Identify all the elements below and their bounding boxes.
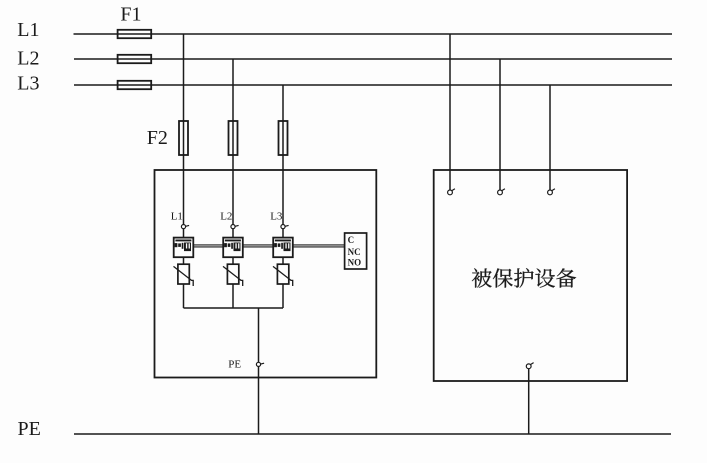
- wire PE bus inside SPD: [184, 307, 284, 309]
- remote signal contact block U1: [345, 233, 367, 269]
- fuse F1 element on L1: [118, 30, 152, 38]
- fuse F2 element 1: [179, 121, 188, 155]
- wire tap from L2 to SPD: [232, 59, 234, 225]
- wire phase line L2: [74, 58, 672, 60]
- svg-text:F2: F2: [147, 127, 168, 149]
- svg-text:NO: NO: [348, 258, 362, 268]
- svg-text:L1: L1: [17, 19, 39, 41]
- wire SPD PE terminal to PE line: [258, 367, 260, 435]
- svg-text:PE: PE: [228, 358, 241, 370]
- svg-text:L3: L3: [270, 210, 283, 222]
- terminal L3 (circle with tick): [281, 225, 289, 229]
- wire varistor to PE bus module 3: [282, 284, 284, 308]
- SPD enclosure box: [155, 170, 377, 378]
- svg-text:PE: PE: [18, 418, 41, 440]
- wire varistor to PE bus module 2: [232, 284, 234, 308]
- wire tap from L3 to SPD: [282, 85, 284, 225]
- svg-text:NC: NC: [348, 247, 361, 257]
- terminal PE of equipment: [526, 363, 533, 369]
- wire varistor to PE bus module 1: [183, 284, 185, 308]
- wire drop from L2 to equipment: [499, 59, 501, 190]
- wire phase line L3: [74, 84, 672, 86]
- varistor MOV module 2: [223, 264, 243, 286]
- protected equipment box: [434, 170, 627, 381]
- wire terminal to disconnector module 2: [232, 229, 234, 238]
- terminal L3 of equipment: [548, 189, 555, 195]
- fuse F1 element on L3: [118, 81, 152, 89]
- wire drop from L3 to equipment: [549, 85, 551, 190]
- fuse F2 element 3: [279, 121, 288, 155]
- wire terminal to disconnector module 1: [183, 229, 185, 238]
- svg-text:L1: L1: [171, 210, 183, 222]
- terminal L1 (circle with tick): [181, 225, 189, 229]
- thermal disconnector module 3: [273, 238, 293, 258]
- svg-text:F1: F1: [120, 3, 141, 25]
- equipment label char 被: [472, 268, 492, 287]
- mechanical linkage double line 1-2: [193, 245, 223, 247]
- mechanical linkage double line 3-contact: [293, 245, 345, 247]
- svg-text:L2: L2: [220, 210, 232, 222]
- svg-text:C: C: [348, 235, 355, 245]
- wire terminal to disconnector module 3: [282, 229, 284, 238]
- equipment label char 设: [535, 269, 555, 288]
- wire drop from L1 to equipment: [449, 34, 451, 190]
- fuse F1 element on L2: [118, 55, 152, 63]
- svg-text:L3: L3: [17, 73, 39, 95]
- wire disconnector to varistor module 1: [183, 257, 185, 264]
- terminal L2 (circle with tick): [231, 225, 239, 229]
- mechanical linkage double line 2-3: [243, 245, 273, 247]
- thermal disconnector module 1: [174, 238, 194, 258]
- wire disconnector to varistor module 3: [282, 257, 284, 264]
- thermal disconnector module 2: [223, 238, 243, 258]
- fuse F2 element 2: [229, 121, 238, 155]
- wire disconnector to varistor module 2: [232, 257, 234, 264]
- varistor MOV module 1: [174, 264, 194, 286]
- equipment label char 备: [556, 268, 576, 287]
- terminal L2 of equipment: [498, 189, 505, 195]
- terminal L1 of equipment: [448, 189, 455, 195]
- wire equipment PE terminal to PE line: [528, 369, 530, 434]
- equipment label char 保: [493, 268, 513, 287]
- svg-text:L2: L2: [17, 48, 39, 70]
- varistor MOV module 3: [273, 264, 293, 286]
- wire tap from L1 to SPD: [183, 34, 185, 225]
- terminal PE of SPD: [256, 362, 264, 366]
- equipment label char 护: [514, 268, 533, 287]
- wire bus to PE terminal: [258, 308, 260, 362]
- wire phase line L1: [74, 33, 673, 35]
- wire PE line: [74, 433, 671, 435]
